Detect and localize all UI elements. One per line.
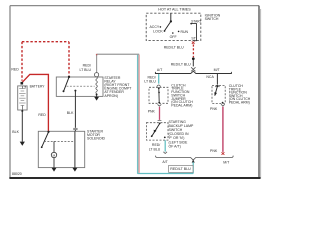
svg-text:M/T: M/T xyxy=(223,161,230,165)
svg-text:START: START xyxy=(191,19,201,23)
svg-text:LOCK: LOCK xyxy=(153,30,163,34)
svg-text:BLK: BLK xyxy=(67,111,74,115)
svg-text:LT BLU: LT BLU xyxy=(144,79,156,83)
svg-text:LT BLU: LT BLU xyxy=(149,148,161,152)
svg-text:PNK: PNK xyxy=(210,149,218,153)
svg-text:BATTERY: BATTERY xyxy=(30,84,46,88)
svg-text:BLK: BLK xyxy=(12,130,19,134)
svg-text:PNK: PNK xyxy=(148,110,156,114)
svg-text:RED: RED xyxy=(11,68,19,72)
svg-text:PEDAL ARM): PEDAL ARM) xyxy=(171,104,192,108)
svg-text:HOT AT ALL TIMES: HOT AT ALL TIMES xyxy=(158,8,191,12)
svg-text:RED/LT BLU: RED/LT BLU xyxy=(171,63,191,67)
svg-text:SOLENOID: SOLENOID xyxy=(87,136,106,140)
svg-text:88020: 88020 xyxy=(12,172,22,176)
svg-text:APRON): APRON) xyxy=(104,94,118,98)
svg-text:PNK: PNK xyxy=(210,107,218,111)
svg-text:OF A/T): OF A/T) xyxy=(169,144,181,148)
svg-text:A/T: A/T xyxy=(157,68,163,72)
svg-text:ACCY: ACCY xyxy=(149,25,159,29)
svg-text:SWITCH: SWITCH xyxy=(205,17,219,21)
svg-text:RED/LT BLU: RED/LT BLU xyxy=(164,45,184,49)
svg-text:M/T: M/T xyxy=(214,68,221,72)
svg-text:PEDAL ARM): PEDAL ARM) xyxy=(229,101,250,105)
svg-text:RED: RED xyxy=(38,113,46,117)
svg-text:RUN: RUN xyxy=(181,30,189,34)
svg-text:RED/: RED/ xyxy=(83,63,91,67)
svg-text:A/T: A/T xyxy=(162,160,168,164)
svg-text:OFF: OFF xyxy=(170,35,177,39)
svg-text:RED/LT BLU: RED/LT BLU xyxy=(170,167,191,171)
svg-text:NCA: NCA xyxy=(206,75,214,79)
svg-text:LT BLU: LT BLU xyxy=(79,68,91,72)
